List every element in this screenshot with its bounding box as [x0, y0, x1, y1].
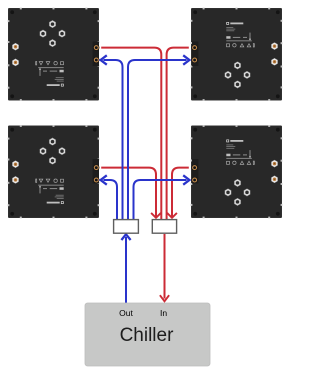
port U2 blue in — [192, 57, 198, 63]
port U1 blue in — [93, 57, 99, 63]
port U1 red out — [93, 45, 99, 51]
pipe supply row1 right — [128, 60, 187, 219]
arrow into U1 — [101, 55, 107, 64]
chiller — [85, 303, 210, 366]
svg-text:In: In — [160, 308, 167, 318]
port U3 blue in — [93, 177, 99, 183]
arrow into U3 — [101, 175, 107, 184]
pipe supply row2 left — [104, 180, 118, 219]
arrow into red manifold right — [167, 213, 177, 218]
red arrowheads — [151, 213, 177, 301]
port plate U1 — [93, 42, 99, 67]
arrow into U2 — [183, 55, 189, 64]
red manifold — [152, 220, 176, 234]
pipe return row2 left — [101, 168, 156, 217]
pipe supply row1 left — [104, 60, 123, 219]
port U4 blue in — [192, 177, 198, 183]
pipe return row1 right — [167, 48, 189, 219]
blue arrowheads — [101, 55, 190, 240]
pipe chiller in drop — [164, 234, 166, 299]
port U3 red out — [93, 165, 99, 171]
red return pipes — [101, 48, 189, 299]
panel U3 bottom-left (rotated 180) — [8, 125, 100, 218]
panel U2 top-right (upright) — [191, 8, 283, 101]
arrow into red manifold left — [151, 213, 161, 218]
port plate U4 — [192, 159, 198, 184]
port U2 red out — [192, 45, 198, 51]
pipe return row1 left — [101, 48, 161, 219]
panel U1 top-left (rotated 180) — [8, 8, 100, 101]
svg-text:Out: Out — [119, 308, 133, 318]
port plate U3 — [93, 159, 99, 184]
blue supply pipes — [104, 60, 187, 303]
svg-text:Chiller: Chiller — [120, 325, 175, 346]
arrow into U4 — [183, 175, 189, 184]
port U4 red out — [192, 165, 198, 171]
port plate U2 — [192, 42, 198, 67]
arrow into chiller — [160, 295, 169, 301]
arrow into blue manifold — [121, 234, 130, 240]
blue manifold — [114, 220, 139, 234]
pipe return row2 right — [172, 168, 189, 217]
panel U4 bottom-right (upright) — [191, 125, 283, 218]
pipe supply row2 right — [134, 180, 187, 219]
pipe chiller out riser — [125, 237, 127, 303]
